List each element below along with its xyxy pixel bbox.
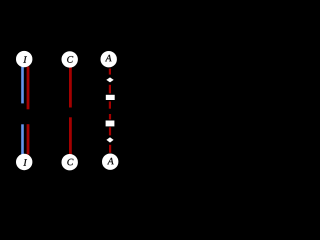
wire red I lower segment	[27, 124, 30, 154]
node C top	[61, 51, 77, 67]
wire red A dash 3	[109, 101, 111, 108]
node I bottom	[16, 154, 32, 170]
wire blue qubit I lower segment	[21, 124, 24, 154]
wire red A dash 6	[109, 145, 111, 153]
node C bottom	[61, 154, 77, 170]
wire red C upper segment	[69, 67, 72, 108]
wire red A dash 4	[109, 114, 111, 120]
wire red C lower segment	[69, 117, 72, 154]
diamond marker D1	[106, 77, 113, 82]
wire blue qubit I upper segment	[21, 67, 24, 104]
node I top	[16, 51, 32, 67]
wire red A dash 5	[109, 127, 111, 135]
node A bottom	[102, 154, 118, 170]
wire red A dash 2	[109, 85, 111, 94]
wire red A dash 1	[109, 69, 111, 75]
box marker S2	[106, 121, 115, 127]
wire red I upper segment	[27, 67, 30, 110]
diamond marker D2	[106, 137, 113, 142]
node A top	[101, 51, 117, 67]
box marker S1	[106, 95, 115, 100]
